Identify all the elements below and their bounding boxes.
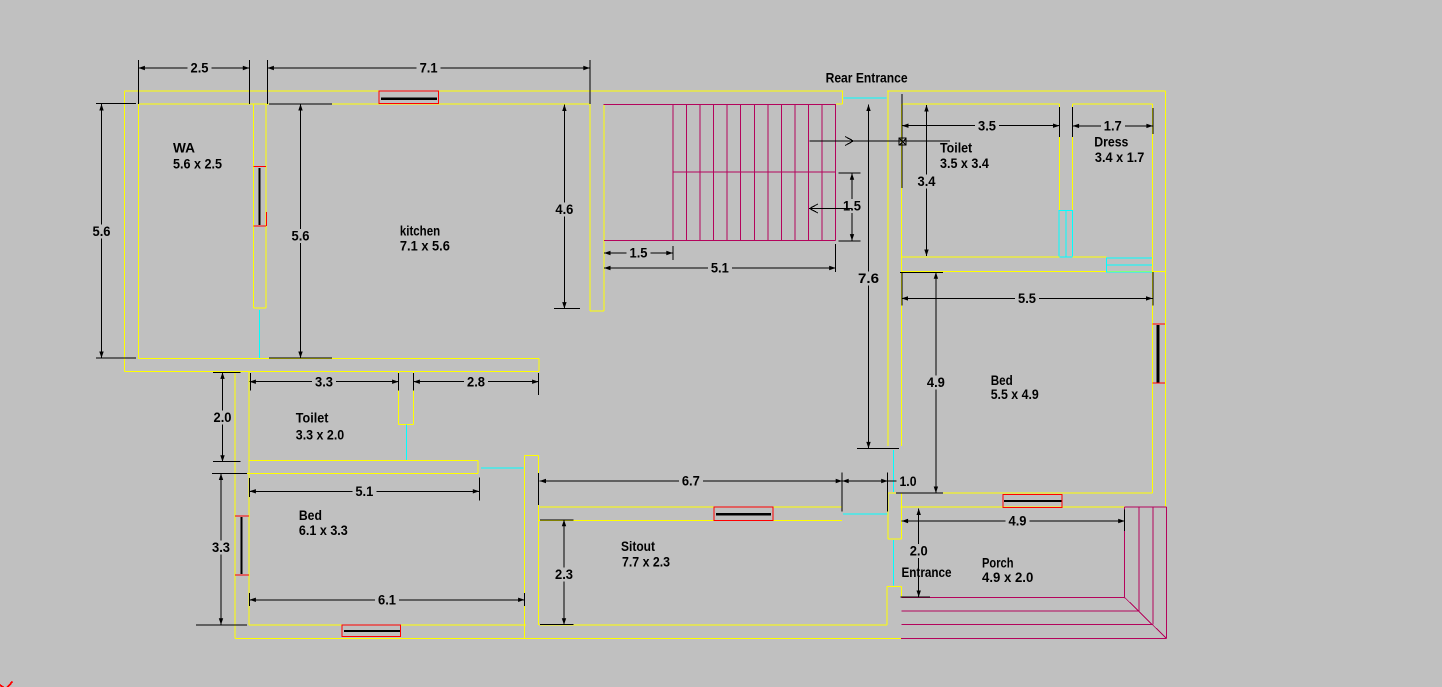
- wall: kitchen right, inner line: [589, 104, 591, 311]
- wall: stair hall right / toilet west, outer line: [887, 91, 889, 446]
- wall: toilet(3.3) partition stub cap: [399, 424, 414, 426]
- svg-text:6.1 x 3.3: 6.1 x 3.3: [299, 522, 348, 538]
- svg-text:1.0: 1.0: [900, 473, 917, 489]
- label: kitchen: [400, 223, 440, 239]
- svg-text:5.6: 5.6: [292, 228, 310, 244]
- svg-text:3.4: 3.4: [918, 173, 936, 189]
- wall: inner top, WA/kitchen: [139, 103, 591, 105]
- window: bed(5.5) south window pane bar: [1004, 500, 1062, 502]
- window: kitchen north window pane bar: [381, 97, 437, 99]
- svg-text:5.5: 5.5: [1018, 290, 1036, 306]
- porch: step verticals (east side): [1125, 507, 1167, 638]
- svg-text:7.1 x 5.6: 7.1 x 5.6: [400, 238, 450, 254]
- label: Bed (left): [299, 507, 322, 523]
- dimension 3.3 (bed height): [212, 474, 230, 625]
- stairs: staircase with treads: [604, 104, 837, 240]
- door (cyan): main entrance door: [893, 540, 895, 586]
- dim extension lines: WA height: [96, 104, 136, 359]
- label: Bed (right): [991, 372, 1013, 388]
- porch: top cap over steps: [1125, 506, 1167, 508]
- label: Porch size: [982, 569, 1033, 585]
- dimension 4.9 (bed height): [927, 272, 945, 493]
- svg-text:5.1: 5.1: [355, 483, 373, 499]
- stair direction arrow (up): [810, 137, 951, 146]
- svg-text:3.5 x 3.4: 3.5 x 3.4: [940, 155, 989, 171]
- dim extension line: 4.6 bottom: [554, 308, 580, 310]
- label: Dress: [1094, 134, 1128, 150]
- window (red): WA partition window caps: [254, 167, 267, 227]
- window (red): sitout window box: [714, 507, 773, 521]
- dimension 2.3 (sitout height): [555, 520, 573, 625]
- wall: inner top, toilet: [902, 103, 1060, 105]
- wall: entrance stub upper, caps and sides: [888, 493, 902, 539]
- svg-text:3.3 x 2.0: 3.3 x 2.0: [296, 426, 345, 442]
- wall: toilet(3.3)/bed(6.1) wall, inner line: [249, 460, 478, 462]
- window (red): kitchen north window box: [379, 91, 439, 104]
- svg-text:1.7: 1.7: [1104, 118, 1122, 134]
- door (cyan): passage door to bed(5.5): [893, 450, 895, 492]
- wall: inner left: [138, 104, 140, 359]
- dim extension line: stair 5.1: [835, 244, 837, 272]
- wall: stair hall right / toilet west, inner line: [901, 104, 903, 446]
- svg-text:5.5 x 4.9: 5.5 x 4.9: [991, 386, 1039, 402]
- dimension 1.0 (entrance width): [842, 473, 916, 489]
- wall: bed(5.5) bottom, outer line: [900, 506, 1165, 508]
- door (cyan): WA doorway: [259, 310, 261, 359]
- svg-text:4.9: 4.9: [1009, 513, 1027, 529]
- svg-text:7.6: 7.6: [858, 270, 879, 286]
- dim extension lines: 6.1 dim: [249, 593, 524, 606]
- dim extension line: stair 1.5: [672, 246, 674, 260]
- door (cyan): toilet-dress door: [1059, 211, 1073, 258]
- label: Sitout size: [622, 554, 670, 570]
- dim extension lines: 5.5 dim: [902, 272, 1153, 306]
- svg-text:7.7 x 2.3: 7.7 x 2.3: [622, 554, 670, 570]
- svg-text:4.9 x 2.0: 4.9 x 2.0: [982, 569, 1033, 585]
- wall: sitout west wall outer line: [523, 456, 525, 639]
- svg-text:Porch: Porch: [982, 555, 1014, 571]
- wall: top block bottom, inner line: [139, 358, 539, 360]
- wall: outer right: [1164, 91, 1166, 507]
- door (cyan): sitout entrance opening: [843, 513, 888, 515]
- porch: step line 3: [902, 624, 1153, 626]
- dimension 1.7 (dress width): [1073, 118, 1153, 134]
- window (cyan): dress south window: [1106, 258, 1152, 272]
- node marker: osnap point: [899, 135, 906, 150]
- door (cyan): rear entrance opening: [844, 97, 887, 99]
- wall: inner right: [1152, 104, 1154, 493]
- label: kitchen size: [400, 238, 450, 254]
- wall: WA/kitchen partition right line: [265, 104, 267, 308]
- label: Toilet size: [940, 155, 989, 171]
- dimension 3.5 (toilet width): [902, 117, 1060, 133]
- svg-text:Toilet: Toilet: [296, 410, 329, 426]
- dimension 2.5 (WA width): [138, 60, 249, 76]
- label: Toilet (top right): [940, 140, 972, 156]
- dimension 5.6 (kitchen height): [292, 104, 310, 358]
- wall: bottom outer line: [235, 638, 901, 640]
- svg-text:1.5: 1.5: [843, 198, 861, 214]
- label: Sitout: [621, 538, 655, 554]
- dimension 7.1 (kitchen width): [267, 60, 589, 76]
- wall: lower-left block west, outer line: [234, 371, 236, 638]
- wall: toilet block bottom, outer line: [902, 271, 1166, 273]
- wall: inner top jamb segment: [836, 103, 842, 105]
- dimension 2.0 (toilet height): [214, 372, 232, 461]
- svg-text:3.3: 3.3: [212, 539, 230, 555]
- wall: sitout top, inner line: [538, 520, 842, 522]
- label: Porch: [982, 555, 1014, 571]
- window: bed(5.5) east window pane bar: [1157, 325, 1160, 383]
- label: Entrance: [902, 564, 952, 580]
- dim extension lines: 2.8 dim: [413, 373, 538, 395]
- svg-text:7.1: 7.1: [420, 60, 438, 76]
- svg-text:3.4 x 1.7: 3.4 x 1.7: [1095, 149, 1145, 165]
- dimension 5.1 (stair run): [604, 260, 836, 276]
- label: WA: [173, 139, 195, 155]
- dimension 4.6 (kitchen right): [555, 105, 573, 309]
- wall: kitchen right wall end cap: [590, 310, 604, 312]
- label: Toilet (left): [296, 410, 329, 426]
- svg-text:3.3: 3.3: [315, 373, 333, 389]
- svg-text:2.0: 2.0: [214, 409, 232, 425]
- dim extension lines: 3.3 dim: [250, 373, 398, 391]
- dim extension lines: 2.0 toilet dim: [213, 372, 241, 461]
- label: Toilet size (left): [296, 426, 345, 442]
- wall: outer top (left of rear entrance): [125, 90, 843, 92]
- window: WA partition window pane bar: [258, 168, 260, 225]
- dimension 6.1 (bed width): [249, 592, 524, 608]
- wall: sitout west wall inner line: [537, 456, 539, 625]
- dim extension lines: 2.3 dim: [540, 520, 573, 625]
- svg-text:2.3: 2.3: [555, 566, 573, 582]
- porch: step line 2: [902, 610, 1139, 612]
- dimension 6.7 (sitout top width): [540, 473, 843, 489]
- dim extension line: 1.0 dim: [887, 472, 889, 511]
- dim extension lines: 5.1 bed dim: [249, 478, 479, 501]
- wall: top block bottom, outer line: [125, 370, 539, 372]
- window (red): bed(6.1) south window box: [342, 625, 401, 637]
- dimension 2.8 (passage width): [413, 373, 538, 389]
- svg-text:Dress: Dress: [1094, 134, 1128, 150]
- ucs icon fragment (red): [0, 682, 13, 687]
- dim extension line: 4.9 porch: [1124, 510, 1126, 531]
- window (red): bed(5.5) east window caps: [1153, 324, 1166, 383]
- porch: step line 1: [902, 597, 1125, 599]
- dimension 1.5 (stair landing): [604, 245, 673, 261]
- label: Dress size: [1095, 149, 1145, 165]
- wall: outer top (right of rear entrance): [887, 90, 1165, 92]
- door (cyan): hall doorway to bed block: [481, 467, 524, 469]
- wall: toilet block bottom, inner line: [902, 256, 1107, 258]
- wall: toilet(3.3) partition stub right line: [412, 371, 414, 424]
- dim extension lines: stair vertical 1.5: [839, 173, 861, 241]
- dimension 2.0 (porch height): [910, 509, 928, 598]
- wall: toilet/dress partition right line: [1072, 104, 1074, 211]
- wall: entrance stub lower: [887, 586, 902, 625]
- dim extension lines: 1.7 dim: [1073, 107, 1153, 137]
- svg-text:1.5: 1.5: [630, 245, 648, 261]
- window (red): bed(6.1) west window caps: [235, 516, 249, 575]
- wall: WA/kitchen partition end cap: [254, 307, 266, 309]
- svg-text:2.0: 2.0: [910, 543, 928, 559]
- svg-text:Toilet: Toilet: [940, 140, 972, 156]
- svg-text:WA: WA: [173, 139, 195, 155]
- label: WA size: [173, 155, 222, 171]
- svg-text:6.7: 6.7: [682, 473, 700, 489]
- svg-text:5.1: 5.1: [711, 260, 729, 276]
- dim extension line: 7.6 bottom: [857, 447, 899, 449]
- svg-text:2.5: 2.5: [191, 60, 209, 76]
- wall: sitout top, outer line: [540, 506, 842, 508]
- dimension 3.4 (toilet height): [918, 105, 936, 256]
- wall: rear entrance left jamb: [841, 91, 843, 104]
- wall: outer left: [124, 91, 126, 371]
- dimension 5.6 (WA height): [93, 104, 111, 358]
- door (cyan): toilet(3.3) doorway: [406, 425, 408, 461]
- svg-text:Bed: Bed: [299, 507, 322, 523]
- dimension 4.9 (porch width): [902, 513, 1125, 529]
- dim extension lines: 3.3 bed dim: [196, 474, 247, 625]
- porch: step line 4 (bottom): [901, 638, 1166, 640]
- stair direction arrow (down): [810, 204, 853, 213]
- wall: bottom inner line (bed block): [249, 624, 526, 626]
- svg-text:6.1: 6.1: [378, 592, 396, 608]
- dim extension lines: 4.9 bed dim: [896, 272, 943, 493]
- dim extension lines: kitchen height: [269, 104, 332, 358]
- wall: WA/kitchen partition left line: [253, 104, 255, 308]
- dim extension lines: 6.7 dim: [539, 472, 843, 511]
- svg-text:4.6: 4.6: [555, 201, 573, 217]
- svg-text:Sitout: Sitout: [621, 538, 655, 554]
- wall: toilet/dress partition left line: [1059, 104, 1061, 211]
- svg-text:3.5: 3.5: [978, 117, 996, 133]
- wall: kitchen right, outer line: [603, 104, 605, 311]
- label: Bed size (left): [299, 522, 348, 538]
- svg-text:Entrance: Entrance: [902, 564, 952, 580]
- window: bed(6.1) south window pane bar: [344, 630, 400, 632]
- label: Bed size (right): [991, 386, 1039, 402]
- window (red): bed(5.5) south window box: [1003, 495, 1062, 508]
- wall: inner top, dress: [1073, 103, 1153, 105]
- dimension 3.3 (toilet width): [249, 373, 398, 389]
- svg-text:4.9: 4.9: [927, 374, 945, 390]
- dimension 5.5 (bed width): [902, 290, 1153, 306]
- dim extension lines: top dims: [138, 60, 589, 104]
- svg-text:2.8: 2.8: [467, 373, 485, 389]
- wall: top block bottom end cap: [538, 359, 540, 372]
- wall: sitout west wall top cap: [524, 455, 538, 457]
- window: sitout window pane bar: [716, 513, 771, 515]
- wall: bed(5.5) bottom, inner line: [902, 492, 1153, 494]
- porch: corner diagonal: [1125, 598, 1167, 639]
- wall: lower-left block west, inner line: [248, 371, 250, 625]
- dimension 1.5 (stair, vertical): [843, 173, 861, 240]
- label: Rear Entrance: [826, 69, 908, 85]
- window: bed(6.1) west window pane bar: [240, 517, 242, 574]
- dim extension line: 2.0 porch: [901, 596, 931, 598]
- svg-text:5.6 x 2.5: 5.6 x 2.5: [173, 155, 222, 171]
- wall: bottom inner line (sitout): [539, 624, 887, 626]
- svg-text:kitchen: kitchen: [400, 223, 440, 239]
- svg-text:5.6: 5.6: [93, 223, 111, 239]
- dim extension lines: 3.5 dim: [902, 94, 1060, 188]
- dimension 5.1 (bed part width): [249, 483, 479, 499]
- svg-text:Rear Entrance: Rear Entrance: [826, 69, 908, 85]
- wall: toilet(3.3) partition stub left line: [398, 371, 400, 424]
- dimension 7.6 (hall height): [858, 105, 879, 449]
- wall: toilet/bed wall end cap: [477, 461, 479, 474]
- wall: toilet(3.3)/bed(6.1) wall, outer line: [235, 473, 478, 475]
